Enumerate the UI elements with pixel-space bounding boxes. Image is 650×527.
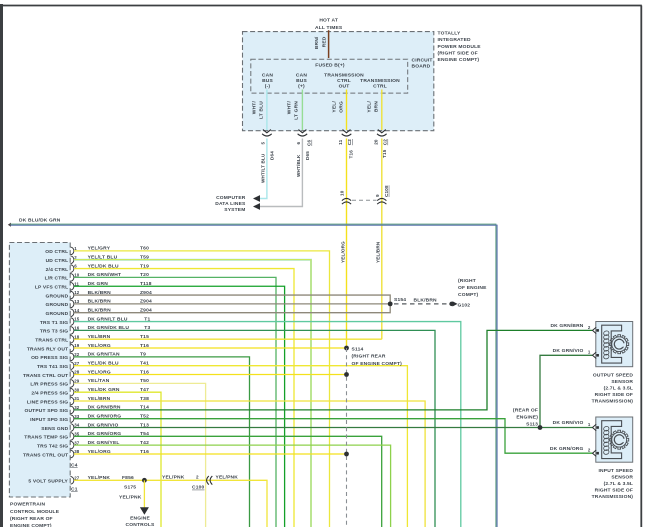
node PCM pin 10 L/R CTRL: [71, 274, 74, 282]
node PCM pin 27 5 VOLT SUPPLY: [71, 477, 74, 485]
svg-text:YEL/PNK: YEL/PNK: [216, 475, 239, 481]
node S175 splice: [142, 478, 147, 483]
svg-text:DK GRN/ORG: DK GRN/ORG: [550, 446, 584, 452]
svg-text:TRS T42 SIG: TRS T42 SIG: [37, 443, 68, 449]
svg-text:BUS: BUS: [296, 78, 307, 84]
svg-text:OF ENGINE COMPT): OF ENGINE COMPT): [352, 361, 403, 367]
svg-text:YEL/PNK: YEL/PNK: [119, 495, 142, 501]
wire WHT/BLK to data link: [260, 139, 302, 207]
wire WHT/LT GRN inside TIPM: [301, 90, 303, 131]
svg-text:GROUND: GROUND: [45, 302, 68, 308]
connector pin TIPM 5: [263, 130, 271, 133]
svg-text:2/4 CTRL: 2/4 CTRL: [46, 267, 69, 273]
node tick at bus line start: [8, 223, 11, 227]
svg-text:RIGHT SIDE OF: RIGHT SIDE OF: [595, 392, 633, 398]
svg-text:S114: S114: [352, 346, 364, 352]
TIPM module box (TOTALLY INTEGRATED POWER MODULE): [243, 32, 434, 131]
connector pin TIPM 11: [343, 130, 351, 133]
node PCM pin 31 LINE PRESS SIG: [71, 397, 74, 405]
svg-text:LT GRN: LT GRN: [294, 101, 300, 120]
page border right: [640, 6, 642, 527]
svg-text:OUT: OUT: [339, 84, 350, 90]
wire YEL/TAN pin 29 circuit T50: [74, 383, 206, 527]
node PCM pin 15 TRS T1 SIG: [71, 318, 74, 326]
svg-text:C2: C2: [383, 139, 388, 145]
svg-text:WHT/LT BLU: WHT/LT BLU: [260, 153, 265, 183]
svg-text:(RIGHT REAR OF: (RIGHT REAR OF: [10, 516, 53, 522]
connector C108 pin 10: [342, 198, 351, 200]
svg-text:CTRL: CTRL: [337, 78, 351, 84]
svg-text:C1: C1: [71, 487, 78, 493]
page border top: [3, 5, 642, 7]
svg-text:SYSTEM: SYSTEM: [224, 207, 245, 213]
wire BLK/BRN ground group to S154: [74, 295, 390, 313]
svg-text:TRANSMISSION): TRANSMISSION): [592, 398, 634, 404]
svg-text:(2.7L & 3.5L: (2.7L & 3.5L: [604, 385, 634, 391]
svg-text:YEL/BRN: YEL/BRN: [376, 241, 381, 263]
node PCM pin 32 OUTPUT SPD SIG: [71, 406, 74, 414]
svg-text:DK GRN/VIO: DK GRN/VIO: [553, 420, 584, 426]
svg-text:TRANS CTRL OUT: TRANS CTRL OUT: [23, 452, 68, 458]
svg-text:SENSOR: SENSOR: [611, 474, 633, 480]
wire YEL/ORG pin 19 to S114: [74, 347, 347, 349]
svg-text:DK BLU/DK GRN: DK BLU/DK GRN: [19, 218, 61, 224]
node arrow to computer data lines (1): [253, 195, 260, 202]
svg-text:COMPT): COMPT): [458, 292, 479, 298]
node S114 splice dot pin 28: [344, 372, 349, 377]
node PCM pin 14 GROUND: [71, 309, 74, 317]
node PCM pin 33 INPUT SPD SIG: [71, 415, 74, 423]
svg-text:INPUT SPD SIG: INPUT SPD SIG: [30, 417, 68, 423]
svg-text:GROUND: GROUND: [45, 293, 68, 299]
svg-text:(RIGHT SIDE OF: (RIGHT SIDE OF: [438, 51, 478, 57]
wire DK GRN/ORG pin 33 to input speed sensor: [74, 419, 593, 454]
svg-text:20: 20: [373, 139, 378, 145]
svg-text:CIRCUIT: CIRCUIT: [412, 58, 433, 64]
svg-text:OD CTRL: OD CTRL: [45, 249, 68, 255]
svg-text:ENGINE COMPT): ENGINE COMPT): [10, 523, 52, 527]
svg-text:(REAR OF: (REAR OF: [513, 408, 538, 414]
svg-text:ORG: ORG: [338, 101, 344, 113]
svg-text:C6: C6: [307, 140, 312, 146]
node S154 splice: [388, 301, 393, 306]
wire WHT/LT BLU inside TIPM: [266, 90, 268, 131]
svg-text:BRN: BRN: [374, 101, 380, 112]
svg-text:5: 5: [261, 142, 266, 145]
svg-text:COMPUTER: COMPUTER: [216, 195, 246, 201]
node S113 splice: [538, 425, 543, 430]
svg-text:(2.7L & 3.5L: (2.7L & 3.5L: [604, 481, 634, 487]
svg-text:T15: T15: [382, 149, 387, 158]
ground G102: [449, 302, 453, 306]
svg-text:TRANSMISSION: TRANSMISSION: [324, 72, 364, 78]
wire DK GRN/LT BLU pin 15 circuit T1: [74, 322, 461, 527]
svg-text:TRANS RLY OUT: TRANS RLY OUT: [27, 346, 68, 352]
wire DK BLU/DK GRN bus: [11, 224, 496, 527]
node PCM pin 11 LP VFS CTRL: [71, 282, 74, 290]
svg-text:TRANS TEMP SIG: TRANS TEMP SIG: [24, 435, 68, 441]
svg-text:33: 33: [74, 414, 79, 419]
wire YEL/BRN TIPM to PCM pin 18: [381, 139, 383, 340]
svg-text:2: 2: [588, 448, 591, 453]
svg-text:D64: D64: [270, 151, 275, 160]
svg-text:6: 6: [296, 142, 301, 145]
sensor input speed sensor: [593, 417, 633, 462]
svg-text:2: 2: [588, 325, 591, 330]
wire YEL/GRY pin 1 circuit T60: [74, 251, 330, 527]
svg-text:CTRL: CTRL: [373, 84, 387, 90]
svg-text:C100: C100: [192, 485, 205, 491]
node PCM pin 38 TRANS CTRL OUT: [71, 450, 74, 458]
wire YEL/DK BLU pin 6 circuit T19: [74, 269, 294, 527]
svg-text:2: 2: [196, 475, 199, 480]
wire DK GRN/ORG pin 35 circuit T54: [74, 436, 382, 527]
svg-text:TRS T41 SIG: TRS T41 SIG: [37, 364, 68, 370]
wire YEL/BRN pin 31 circuit T38: [74, 401, 425, 527]
wire DK GRN/BRN pin 32 to output speed sensor: [74, 330, 593, 409]
PCM module box (POWERTRAIN CONTROL MODULE): [9, 243, 70, 498]
svg-text:POWERTRAIN: POWERTRAIN: [10, 502, 46, 508]
svg-text:31: 31: [74, 396, 79, 401]
svg-text:10: 10: [340, 190, 345, 196]
svg-text:UD CTRL: UD CTRL: [46, 258, 69, 264]
svg-text:SENS GND: SENS GND: [41, 426, 68, 432]
wire C108 dashed link: [352, 199, 377, 201]
svg-text:1: 1: [588, 350, 591, 355]
wire DK GRN pin 11 circuit T118: [74, 286, 285, 527]
svg-text:(RIGHT: (RIGHT: [458, 278, 476, 284]
node PCM pin 2 UD CTRL: [71, 256, 74, 264]
node PCM pin 34 SENS GND: [71, 424, 74, 432]
svg-text:TRANS CTRL: TRANS CTRL: [35, 338, 68, 344]
wire YEL/BRN pin 18 to TIPM drop: [74, 338, 382, 340]
svg-text:YEL/ORG: YEL/ORG: [340, 241, 345, 263]
svg-text:T16: T16: [348, 150, 353, 159]
svg-text:OUTPUT SPEED: OUTPUT SPEED: [593, 373, 633, 379]
node PCM pin 35 TRANS TEMP SIG: [71, 433, 74, 441]
node PCM pin 29 L/R PRESS SIG: [71, 380, 74, 388]
svg-text:YEL/PNK: YEL/PNK: [162, 475, 185, 481]
svg-text:LINE PRESS SIG: LINE PRESS SIG: [27, 399, 68, 405]
svg-text:TRANSMISSION): TRANSMISSION): [592, 494, 634, 500]
node PCM pin 30 2/4 PRESS SIG: [71, 388, 74, 396]
svg-text:RIGHT SIDE OF: RIGHT SIDE OF: [595, 487, 633, 493]
connector C108 pin 9: [377, 198, 386, 200]
svg-text:GROUND: GROUND: [45, 311, 68, 317]
wire YEL/BRN inside TIPM: [381, 90, 383, 131]
svg-text:L/R CTRL: L/R CTRL: [45, 276, 69, 282]
svg-text:CAN: CAN: [296, 72, 307, 78]
node arrow to computer data lines (2): [253, 203, 260, 210]
svg-text:S113: S113: [526, 422, 538, 428]
svg-text:TOTALLY: TOTALLY: [438, 30, 461, 36]
svg-text:L/R PRESS SIG: L/R PRESS SIG: [30, 382, 68, 388]
svg-text:SENSOR: SENSOR: [611, 379, 633, 385]
node PCM pin 19 TRANS RLY OUT: [71, 344, 74, 352]
wire DK GRN/TAN pin 22 circuit T9: [74, 357, 250, 527]
node PCM pin 12 GROUND: [71, 291, 74, 299]
svg-text:TRANSMISSION: TRANSMISSION: [360, 78, 400, 84]
svg-text:RED: RED: [322, 36, 328, 47]
svg-text:G102: G102: [458, 303, 471, 309]
wire YEL/PNK to engine controls: [143, 480, 145, 507]
node PCM pin 27 TRS T41 SIG: [71, 362, 74, 370]
svg-text:C108: C108: [384, 185, 389, 197]
svg-text:WHT/: WHT/: [287, 101, 293, 115]
node S114 splice: [344, 346, 349, 351]
svg-text:POWER MODULE: POWER MODULE: [438, 44, 482, 50]
wire WHT/LT BLU to data link: [260, 139, 267, 199]
node PCM pin 37 TRS T42 SIG: [71, 441, 74, 449]
wire YEL/DK GRN pin 30 circuit T47: [74, 392, 161, 527]
svg-text:WHT/: WHT/: [252, 101, 258, 115]
wire YEL/ORG pin 28 to S114: [74, 374, 347, 376]
svg-text:2/4 PRESS SIG: 2/4 PRESS SIG: [31, 390, 68, 396]
svg-text:BUS: BUS: [262, 78, 273, 84]
node PCM pin 28 TRANS CTRL OUT: [71, 371, 74, 379]
svg-text:11: 11: [338, 139, 343, 144]
svg-text:18: 18: [74, 334, 79, 339]
svg-text:(-): (-): [265, 84, 271, 90]
svg-text:C4: C4: [71, 463, 78, 469]
svg-text:CONTROL MODULE: CONTROL MODULE: [10, 509, 60, 515]
wire BLK/BRN to ground: [394, 303, 449, 305]
svg-text:HOT AT: HOT AT: [319, 18, 338, 24]
svg-text:CONTROLS: CONTROLS: [126, 522, 155, 527]
page border left bar: [0, 4, 3, 527]
connector pin TIPM 20: [378, 130, 386, 133]
svg-text:BRN/: BRN/: [314, 36, 320, 49]
wire DK GRN/VIO S113 branch to output speed sensor: [540, 355, 593, 427]
wire YEL/DK BLU pin 27 circuit T41: [74, 366, 407, 527]
node PCM pin 22 OD PRESS SIG: [71, 353, 74, 361]
connector pin TIPM 6: [298, 130, 306, 133]
TIPM circuit board inner box: [251, 59, 408, 93]
wire YEL/ORG TIPM to S114: [346, 139, 348, 349]
svg-text:OF ENGINE: OF ENGINE: [458, 285, 487, 291]
node PCM pin 18 TRANS CTRL: [71, 335, 74, 343]
node arrow to engine controls: [140, 507, 149, 515]
wire DK GRN/WHT pin 10 circuit T20: [74, 277, 276, 527]
wire YEL/PNK 5 volt supply: [74, 480, 267, 527]
svg-text:LT BLU: LT BLU: [259, 101, 265, 119]
svg-text:C2: C2: [347, 139, 352, 145]
wire YEL/LT BLU pin 2 circuit T59: [74, 260, 311, 527]
node PCM pin 16 TRS T3 SIG: [71, 327, 74, 335]
svg-text:9: 9: [375, 194, 380, 197]
svg-text:LP VFS CTRL: LP VFS CTRL: [35, 285, 68, 291]
node S114 splice dot pin 38: [344, 452, 349, 457]
wire S114 splice dashed line: [346, 348, 348, 527]
node PCM pin 13 GROUND: [71, 300, 74, 308]
svg-text:TRS T3 SIG: TRS T3 SIG: [40, 329, 68, 335]
svg-text:INTEGRATED: INTEGRATED: [438, 37, 472, 43]
node PCM pin 6 2/4 CTRL: [71, 265, 74, 273]
svg-text:S154: S154: [394, 297, 406, 303]
svg-text:YEL/: YEL/: [367, 101, 373, 113]
svg-text:10: 10: [74, 272, 79, 277]
svg-text:DK GRN/VIO: DK GRN/VIO: [553, 348, 584, 354]
svg-text:DATA LINES: DATA LINES: [215, 201, 246, 207]
svg-text:ENGINE: ENGINE: [130, 516, 150, 522]
svg-text:1: 1: [588, 422, 591, 427]
svg-text:(RIGHT REAR: (RIGHT REAR: [352, 354, 386, 360]
svg-text:ENGINE): ENGINE): [516, 415, 538, 421]
svg-text:TRS T1 SIG: TRS T1 SIG: [40, 320, 68, 326]
svg-text:INPUT SPEED: INPUT SPEED: [599, 468, 634, 474]
svg-text:ENGINE COMPT): ENGINE COMPT): [438, 57, 480, 63]
svg-text:S175: S175: [124, 484, 136, 490]
svg-text:FUSED B(+): FUSED B(+): [315, 62, 345, 68]
svg-text:YEL/: YEL/: [331, 101, 337, 113]
svg-text:(+): (+): [298, 84, 305, 90]
sensor output speed sensor: [593, 322, 633, 367]
wire DK GRN/YEL pin 37 circuit T42: [74, 445, 391, 527]
svg-text:WHT/BLK: WHT/BLK: [296, 154, 301, 177]
svg-text:CAN: CAN: [262, 72, 273, 78]
svg-text:D65: D65: [305, 151, 310, 160]
wire YEL/ORG pin 38 to S114: [74, 453, 347, 455]
wire BRN/RED feed: [328, 30, 330, 58]
wire DK GRN/DK BLU pin 16 circuit T3: [74, 330, 435, 527]
svg-text:5 VOLT SUPPLY: 5 VOLT SUPPLY: [28, 479, 68, 485]
svg-text:DK GRN/BRN: DK GRN/BRN: [550, 323, 583, 329]
svg-text:OUTPUT SPD SIG: OUTPUT SPD SIG: [24, 408, 68, 414]
node PCM pin 1 OD CTRL: [71, 247, 74, 255]
svg-text:TRANS CTRL OUT: TRANS CTRL OUT: [23, 373, 68, 379]
wire YEL/ORG inside TIPM: [346, 90, 348, 131]
svg-text:OD PRESS SIG: OD PRESS SIG: [31, 355, 68, 361]
wire DK GRN/VIO pin 34 to input speed sensor: [74, 427, 593, 429]
svg-text:BLK/BRN: BLK/BRN: [414, 298, 438, 304]
svg-text:BOARD: BOARD: [412, 63, 431, 69]
